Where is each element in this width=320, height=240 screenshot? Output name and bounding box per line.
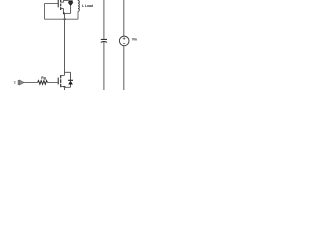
capacitor C plates (polarized) [101, 39, 107, 42]
transistor M2 (low-side DUT MOSFET) [58, 75, 64, 87]
wire switch-node bottom horizontal [45, 18, 79, 20]
transistor M1 (high-side MOSFET, gate tied to source) [58, 0, 63, 13]
node dot at M1 source junction [63, 12, 65, 14]
capacitor C bottom lead [103, 42, 105, 90]
wire top connector M1 drain to D1 [63, 0, 68, 1]
inductor L load (coil of loops) [78, 0, 79, 19]
diode D1 (top device, cathode block with downward triangle) [68, 0, 73, 13]
wire spine: switch node down to M2 drain [64, 13, 66, 75]
wire bump2 M2 source to D2 anode [65, 86, 71, 88]
gate driver pulse source [14, 80, 24, 85]
wire gate-tie loop left vertical [44, 4, 46, 20]
svg-text:L Load: L Load [82, 4, 93, 8]
voltage source Vin bottom lead [123, 46, 125, 90]
capacitor C top lead [103, 0, 105, 39]
voltage source Vin top lead [123, 0, 125, 36]
svg-text:Rg: Rg [41, 76, 46, 80]
wire M2 drain to D2 connector [65, 71, 71, 73]
wire M2 source to bottom edge [64, 87, 66, 91]
voltage source Vin circle with polarity [119, 36, 129, 46]
wire M1 gate lead [45, 3, 58, 5]
wire bump1 M1 source to D1 [63, 12, 70, 14]
node dot at switch node T-junction [64, 18, 66, 20]
svg-text:Vin: Vin [132, 38, 137, 42]
wire Rg to M2 gate [47, 81, 57, 83]
wire driver to Rg [24, 81, 38, 83]
diode D2 (body diode, pointing up) [68, 72, 73, 87]
resistor Rg [38, 81, 48, 85]
node dot at M2 source junction [64, 86, 66, 88]
